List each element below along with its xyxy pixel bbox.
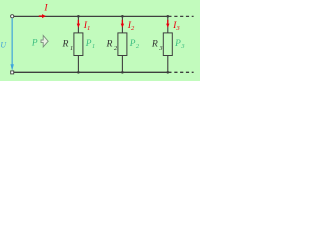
wire top rail [14,15,172,17]
arrow current I1 [77,20,79,24]
svg-text:R: R [106,38,113,49]
junction dot top branch 3 [166,15,169,18]
junction dot top branch 2 [121,15,124,18]
wire branch 3 vertical top [167,16,169,33]
svg-text:3: 3 [175,25,180,32]
node terminal square bottom-left [11,71,14,74]
resistor R1 [74,33,83,56]
svg-text:1: 1 [92,43,95,50]
wire branch 3 vertical bottom [167,56,169,73]
svg-text:P: P [85,39,92,49]
junction dot bottom branch 2 [121,71,124,74]
node terminal circle top-left [11,15,14,18]
resistor R3 [163,33,172,56]
svg-text:R: R [151,38,158,49]
wire source branch (blue U arrow) [11,18,13,65]
resistor R2 [118,33,127,56]
wire branch 1 vertical bottom [77,56,79,73]
svg-text:1: 1 [87,25,90,32]
svg-text:1: 1 [70,45,73,52]
wire branch 1 vertical top [77,16,79,33]
svg-text:R: R [62,38,69,49]
wire bottom rail [14,71,172,73]
wire branch 2 vertical bottom [121,56,123,73]
junction dot bottom branch 1 [77,71,80,74]
junction dot bottom branch 3 [166,71,169,74]
svg-text:P: P [174,39,181,49]
svg-text:P: P [129,39,136,49]
junction dot top branch 1 [77,15,80,18]
wire top rail dashed continuation [174,15,193,17]
arrow current I on top rail [39,15,43,17]
wire bottom rail dashed continuation [174,71,193,73]
wire branch 2 vertical top [121,16,123,33]
svg-text:3: 3 [180,43,185,50]
arrow current I2 [121,20,123,24]
background [0,0,200,81]
svg-text:3: 3 [158,45,163,52]
svg-text:P: P [31,39,38,49]
arrow P hollow block arrow [41,36,48,47]
arrow current I3 [167,20,169,24]
